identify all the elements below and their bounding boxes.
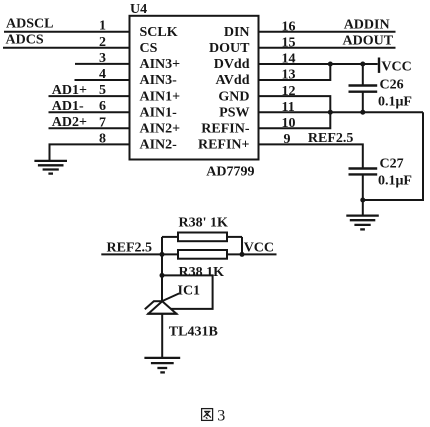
svg-text:11: 11 xyxy=(282,100,295,115)
svg-text:DVdd: DVdd xyxy=(214,57,250,72)
svg-text:8: 8 xyxy=(99,131,106,146)
capacitor C26 xyxy=(349,64,378,112)
svg-text:16: 16 xyxy=(282,19,296,34)
svg-text:REF2.5: REF2.5 xyxy=(107,241,153,256)
svg-text:5: 5 xyxy=(99,83,106,98)
wire pin11 rail xyxy=(259,111,424,113)
wire pin12 xyxy=(259,96,331,112)
svg-text:DIN: DIN xyxy=(224,25,250,40)
svg-text:7: 7 xyxy=(99,115,106,130)
svg-text:AIN3-: AIN3- xyxy=(140,73,178,88)
wire pin16 xyxy=(259,31,396,33)
svg-text:CS: CS xyxy=(140,41,158,56)
svg-text:AIN1-: AIN1- xyxy=(140,105,178,120)
wire pin7 xyxy=(49,127,130,129)
svg-text:VCC: VCC xyxy=(381,59,411,74)
svg-text:DOUT: DOUT xyxy=(209,41,250,56)
svg-text:10: 10 xyxy=(282,116,296,131)
svg-text:6: 6 xyxy=(99,99,106,114)
svg-text:GND: GND xyxy=(218,89,249,104)
svg-text:ADCS: ADCS xyxy=(6,32,44,47)
svg-text:IC1: IC1 xyxy=(178,284,201,299)
ground bottom xyxy=(144,358,180,373)
junction dot C26 bottom xyxy=(360,110,365,115)
wire REF2.5 bottom xyxy=(101,253,178,255)
svg-text:SCLK: SCLK xyxy=(140,25,178,40)
svg-text:AIN1+: AIN1+ xyxy=(140,89,181,104)
svg-text:0.1μF: 0.1μF xyxy=(378,95,412,110)
wire pin2 xyxy=(3,47,130,49)
transistor Q1 : TL431B shunt regulator IC1 symbol xyxy=(145,293,179,313)
svg-text:AD7799: AD7799 xyxy=(206,165,254,180)
svg-text:REF2.5: REF2.5 xyxy=(308,131,354,146)
wire pin14 to VCC xyxy=(259,63,378,65)
junction dot pins 12/10 xyxy=(328,110,333,115)
wire feedback loop xyxy=(162,275,213,309)
resistor R38 xyxy=(178,250,227,259)
svg-text:AD1+: AD1+ xyxy=(52,83,87,98)
svg-text:2: 2 xyxy=(99,35,106,50)
svg-text:ADDIN: ADDIN xyxy=(344,17,390,32)
svg-text:REFIN-: REFIN- xyxy=(201,122,250,137)
wire pin8 xyxy=(50,144,130,161)
junction dot REF2.5 xyxy=(160,252,165,257)
op-amp U1 : AD7799 IC body U4 xyxy=(130,16,259,160)
svg-text:AIN2+: AIN2+ xyxy=(140,122,181,137)
svg-text:R38 1K: R38 1K xyxy=(179,265,225,280)
svg-text:AVdd: AVdd xyxy=(216,73,250,88)
junction dot C27 bottom xyxy=(360,198,365,203)
ground left xyxy=(34,161,67,174)
wire pin10 xyxy=(259,112,331,128)
svg-text:C27: C27 xyxy=(380,157,404,172)
junction dot feedback loop xyxy=(160,273,165,278)
svg-text:PSW: PSW xyxy=(219,105,249,120)
wire TL431 anode down xyxy=(161,314,163,358)
junction dot C26 top xyxy=(360,62,365,67)
wire pin3 xyxy=(75,63,130,65)
svg-text:14: 14 xyxy=(282,52,296,67)
ground right xyxy=(346,216,379,230)
wire resistor left bar xyxy=(161,237,163,255)
svg-text:AD1-: AD1- xyxy=(52,99,84,114)
svg-text:C26: C26 xyxy=(380,77,404,92)
resistor R38' xyxy=(162,233,242,242)
svg-text:1: 1 xyxy=(99,19,106,34)
svg-text:U4: U4 xyxy=(130,2,147,17)
power VCC terminal bar xyxy=(378,58,380,73)
wire pin6 xyxy=(49,111,130,113)
wire right rail down xyxy=(363,112,423,200)
svg-text:0.1μF: 0.1μF xyxy=(378,174,412,189)
svg-text:AIN2-: AIN2- xyxy=(140,138,178,153)
svg-text:3: 3 xyxy=(217,407,225,424)
wire resistor right bar xyxy=(241,237,243,255)
svg-text:3: 3 xyxy=(99,51,106,66)
svg-text:TL431B: TL431B xyxy=(169,325,218,340)
svg-text:ADSCL: ADSCL xyxy=(6,16,53,31)
svg-text:R38' 1K: R38' 1K xyxy=(179,216,229,231)
caption figure 3 (Chinese tu character drawn) xyxy=(202,409,213,421)
svg-text:12: 12 xyxy=(282,84,296,99)
wire pin15 xyxy=(259,47,396,49)
svg-text:VCC: VCC xyxy=(244,241,274,256)
junction dot pin13 rail xyxy=(328,62,333,67)
wire pin1 xyxy=(4,31,130,33)
svg-text:REFIN+: REFIN+ xyxy=(198,138,250,153)
wire pin5 xyxy=(49,95,130,97)
wire pin4 xyxy=(75,79,130,81)
svg-text:AIN3+: AIN3+ xyxy=(140,57,181,72)
svg-text:ADOUT: ADOUT xyxy=(343,33,394,48)
svg-text:9: 9 xyxy=(284,132,291,147)
wire REF2.5 down to TL431 xyxy=(161,254,163,301)
svg-text:13: 13 xyxy=(282,68,296,83)
capacitor C27 xyxy=(349,169,378,216)
junction dot VCC bottom xyxy=(240,252,245,257)
wire pin13 xyxy=(259,64,331,80)
wire pin9 REF2.5 xyxy=(259,144,363,168)
wire VCC bottom xyxy=(227,253,277,255)
svg-text:15: 15 xyxy=(282,36,296,51)
svg-text:4: 4 xyxy=(99,67,106,82)
svg-text:AD2+: AD2+ xyxy=(52,115,87,130)
